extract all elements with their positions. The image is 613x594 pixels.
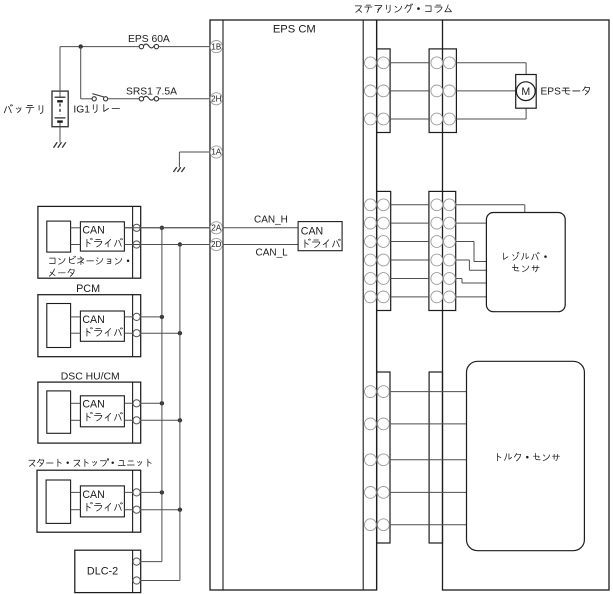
svg-text:CAN_L: CAN_L: [256, 247, 289, 258]
pin 2D (EPS CM): [210, 238, 222, 250]
wire resolver signal 5 (step): [456, 278, 462, 280]
wire DLC-2 CAN_L: [133, 580, 180, 582]
svg-text:CAN: CAN: [82, 489, 104, 501]
connector pins row 1 (torque circuit): [365, 386, 377, 398]
svg-text:EPS 60A: EPS 60A: [128, 34, 170, 45]
wire motor phase 2 harness: [390, 90, 429, 92]
wire resolver signal 2 harness: [391, 222, 429, 224]
wire CAN_L out: [124, 509, 179, 511]
junction CAN_H bus: [160, 490, 164, 494]
wire motor phase 3 to motor bottom: [456, 118, 526, 120]
junction CAN_H bus: [160, 226, 164, 230]
ECU box EPS CM: [210, 20, 377, 590]
svg-text:DSC HU/CM: DSC HU/CM: [61, 372, 120, 383]
svg-text:PCM: PCM: [76, 283, 100, 295]
wire top link: [377, 19, 443, 21]
wire resolver signal 2: [456, 222, 487, 224]
wire resolver signal 4 (step): [456, 259, 470, 261]
CAN driver sub-box: [80, 311, 124, 341]
wire CAN_L out: [124, 332, 179, 334]
wire resolver signal 6: [456, 296, 487, 298]
CAN driver U (EPS CM): [298, 222, 342, 251]
wire fuse EPS to pin 1B: [159, 46, 210, 48]
CAN driver sub-box: [80, 486, 124, 517]
connector pins row 1 (motor circuit): [365, 57, 377, 69]
wire torque sensor signal 3: [390, 459, 467, 461]
wire CAN_H out: [124, 316, 161, 318]
wire resolver signal 1 to sensor top: [456, 204, 525, 206]
junction CAN_L bus: [178, 331, 182, 335]
label: steering column (ステアリング・コラム): [355, 4, 451, 13]
svg-text:M: M: [521, 86, 530, 98]
wire CAN_L out: [124, 244, 210, 246]
label IG1リレー: [73, 104, 119, 115]
pin (CAN_H): [133, 224, 140, 231]
pin (CAN_L): [133, 417, 140, 424]
box steering column (ステアリング・コラム): [443, 20, 610, 590]
wire combination meter to pin 2A: [124, 227, 210, 229]
sensor resolver (レゾルバ・センサ): [486, 213, 565, 312]
pin 2H (EPS CM): [210, 93, 222, 105]
wire torque sensor signal 4: [390, 491, 467, 493]
svg-text:EPS CM: EPS CM: [273, 24, 316, 36]
connector pins row 4 (torque circuit): [365, 487, 377, 499]
junction CAN_H bus: [160, 315, 164, 319]
wire resolver signal 5 harness: [391, 278, 429, 280]
wire resolver signal 1 harness: [391, 204, 429, 206]
connector pins row 6 (resolver circuit): [365, 291, 377, 303]
svg-text:CAN: CAN: [301, 226, 323, 238]
pin DLC-2 (CAN_H): [133, 558, 140, 565]
svg-text:IG1: IG1: [73, 104, 90, 115]
pin 2A (EPS CM): [210, 222, 222, 234]
motor M1 EPS motor: [516, 75, 537, 109]
wire relay to fuse SRS1: [108, 98, 140, 100]
svg-text:1B: 1B: [211, 42, 221, 51]
wire battery to fuse EPS: [60, 46, 139, 48]
svg-text:CAN: CAN: [82, 225, 104, 237]
wire motor phase 1 to motor top: [456, 62, 526, 64]
svg-text:2A: 2A: [211, 224, 221, 233]
wire CAN_H out: [124, 491, 161, 493]
svg-text:1A: 1A: [211, 148, 221, 157]
battery B+ (バッテリ): [52, 91, 68, 127]
wire torque sensor signal 5: [390, 524, 467, 526]
wire CAN_L bus trunk: [179, 245, 181, 581]
wire CAN_H out: [124, 402, 161, 404]
connector block C1 (EPS CM to harness, torque circuit): [377, 372, 390, 543]
wire resolver signal 6 harness: [391, 296, 429, 298]
fuse EPS 60A: [139, 44, 158, 49]
connector pins row 3 (resolver circuit): [365, 236, 377, 248]
wire resolver signal 3 harness: [391, 241, 429, 243]
unit combination meter (コンビネーション・メータ): [38, 206, 141, 278]
wire CAN_H out: [124, 227, 210, 229]
wire pin 2D to CAN driver (CAN_L): [223, 244, 298, 246]
wire CAN_L out: [124, 419, 179, 421]
svg-text:CAN_H: CAN_H: [254, 214, 288, 225]
connector pins row 2 (resolver circuit): [365, 217, 377, 229]
wire DLC-2 CAN_H: [133, 561, 162, 563]
wire resolver signal 4 harness: [391, 259, 429, 261]
svg-text:SRS1 7.5A: SRS1 7.5A: [126, 86, 177, 97]
connector pins row 5 (resolver circuit): [365, 273, 377, 285]
CPU sub-box: [47, 304, 71, 348]
CPU sub-box: [47, 391, 71, 433]
wire resolver signal 3 (step): [456, 241, 474, 243]
wire motor phase 2 to motor: [456, 90, 515, 92]
connector pins row 2 (torque circuit): [365, 418, 377, 430]
wire fuse SRS1 to pin 2H: [159, 98, 210, 100]
pin (CAN_H): [133, 489, 140, 496]
connector pins row 5 (torque circuit): [365, 519, 377, 531]
junction CAN_L bus: [178, 242, 182, 246]
pin (CAN_L): [133, 330, 140, 337]
pin 1A (EPS CM): [210, 146, 222, 158]
CPU sub-box: [46, 480, 71, 523]
pin (CAN_L): [133, 241, 140, 248]
svg-text:2D: 2D: [211, 240, 221, 249]
junction CAN_L bus: [178, 508, 182, 512]
relay IG1 (switch): [81, 47, 108, 101]
connector block A2 (harness to steering column, motor circuit): [429, 49, 456, 133]
connector block A1 (EPS CM to harness, motor circuit): [377, 49, 391, 133]
connector block B2 (harness to steering column, resolver circuit): [429, 191, 456, 310]
wire motor phase 3 harness: [390, 118, 429, 120]
label EPSモータ: [541, 87, 590, 98]
wire motor phase 1 harness: [390, 62, 429, 64]
svg-text:EPS: EPS: [541, 87, 562, 98]
connector pins row 2 (motor circuit): [365, 85, 377, 97]
ground (battery): [54, 142, 66, 147]
pin (CAN_L): [133, 506, 140, 513]
wire pin 1A to ground: [179, 151, 210, 153]
connector pins row 3 (torque circuit): [365, 454, 377, 466]
fuse SRS1 7.5A: [139, 96, 158, 101]
svg-text:2H: 2H: [211, 95, 221, 104]
connector pins row 4 (resolver circuit): [365, 254, 377, 266]
wire CAN_H bus trunk: [161, 228, 163, 562]
wire battery positive vertical: [59, 47, 61, 92]
unit start-stop unit (スタート・ストップ・ユニット): [29, 459, 151, 467]
wire torque sensor signal 2: [390, 423, 467, 425]
junction CAN_H bus: [160, 401, 164, 405]
wire pin 2A to CAN driver (CAN_H): [223, 227, 298, 229]
pin (CAN_H): [133, 400, 140, 407]
ground (EPS CM 1A): [173, 167, 184, 172]
wire torque sensor signal 1: [390, 391, 467, 393]
connector block C2 (harness side, torque circuit): [429, 372, 442, 543]
wire combination meter to pin 2D: [124, 244, 210, 246]
connector block B1 (EPS CM to harness, resolver circuit): [377, 191, 391, 310]
CAN driver sub-box: [80, 222, 124, 251]
label コンビネーション・メータ: [50, 256, 130, 265]
EPS CM right pin column line: [362, 20, 364, 590]
pin (CAN_H): [133, 313, 140, 320]
svg-text:CAN: CAN: [82, 399, 104, 411]
junction CAN_L bus: [178, 418, 182, 422]
pin 1B (EPS CM): [210, 41, 222, 53]
svg-text:DLC-2: DLC-2: [87, 565, 118, 577]
connector harness line (EPS CM side): [376, 20, 378, 590]
sensor torque (トルク・センサ): [467, 361, 585, 550]
junction battery/relay branch: [79, 44, 83, 48]
connector pins row 1 (resolver circuit): [365, 199, 377, 211]
pin DLC-2 (CAN_L): [133, 577, 140, 584]
wire battery to ground: [59, 127, 61, 143]
svg-text:CAN: CAN: [82, 314, 104, 326]
unit DLC-2: [75, 550, 141, 592]
label バッテリ: [4, 105, 43, 114]
EPS CM left pin column line: [222, 20, 224, 590]
CAN driver sub-box: [80, 396, 124, 427]
CPU sub-box: [47, 221, 71, 252]
connector pins row 3 (motor circuit): [365, 113, 377, 125]
